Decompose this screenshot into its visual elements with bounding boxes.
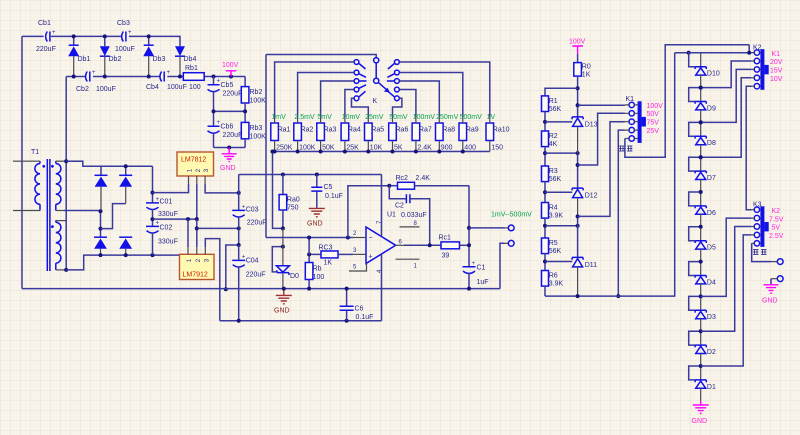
svg-text:Db3: Db3 <box>153 56 166 63</box>
wire 7812 gnd <box>196 184 198 219</box>
wire bridge zigzag <box>101 204 126 229</box>
svg-text:900: 900 <box>441 145 453 152</box>
node bottom rail junctions <box>72 75 233 79</box>
svg-text:RC3: RC3 <box>319 245 333 252</box>
svg-text:1uF: 1uF <box>477 279 489 286</box>
op-amp U1 <box>366 212 396 264</box>
svg-text:+: + <box>52 30 56 36</box>
wire K2 pin5 to K3 pin1 <box>746 86 752 210</box>
wire L4 to Ra4 <box>345 90 354 118</box>
diode D6 zener <box>695 192 716 227</box>
svg-text:−: − <box>369 235 373 242</box>
wire D12 anode <box>576 214 580 257</box>
pin LM7812 pin2 <box>196 176 198 184</box>
svg-text:Ra5: Ra5 <box>371 127 384 134</box>
pin T1 sec1 bottom <box>56 210 64 212</box>
svg-text:R3: R3 <box>549 168 558 175</box>
wire staple D1 <box>689 366 701 380</box>
label tap 10mV <box>342 114 361 121</box>
pin U1 pin2 <box>353 231 366 238</box>
svg-text:K1: K1 <box>772 51 781 58</box>
resistor Ra5 <box>365 123 385 152</box>
node ladder junction 9 <box>699 86 703 90</box>
svg-text:100: 100 <box>313 274 325 281</box>
svg-text:100uF: 100uF <box>167 84 187 91</box>
resistor Ra0 <box>279 175 300 229</box>
wire L1 to Ra1 <box>275 62 354 117</box>
node ladder junction 1 <box>699 364 703 368</box>
svg-text:LM7812: LM7812 <box>181 157 206 164</box>
svg-text:100: 100 <box>189 84 201 91</box>
svg-text:100K: 100K <box>250 98 267 105</box>
pin U1 pin3 <box>353 248 366 254</box>
wire minus rail2 <box>220 319 382 323</box>
svg-text:K: K <box>373 98 378 105</box>
svg-text:D7: D7 <box>707 175 716 182</box>
svg-text:75V: 75V <box>647 120 660 127</box>
diode D13 zener <box>572 117 598 153</box>
power port 100V right <box>569 39 586 55</box>
wire output right column <box>467 186 471 267</box>
svg-text:Rc1: Rc1 <box>439 235 452 242</box>
svg-text:D1: D1 <box>707 384 716 391</box>
svg-text:220uF: 220uF <box>223 91 243 98</box>
svg-text:400: 400 <box>464 145 476 152</box>
pin U1 pin8 <box>400 221 420 227</box>
wire ladder tap to K3 pin2 <box>701 218 752 296</box>
svg-text:10K: 10K <box>370 145 383 152</box>
svg-text:Ra0: Ra0 <box>287 197 300 204</box>
node ladder junction 4 <box>699 260 703 264</box>
svg-text:250K: 250K <box>276 145 293 152</box>
svg-text:D5: D5 <box>707 245 716 252</box>
svg-text:0.1uF: 0.1uF <box>356 314 374 321</box>
capacitor Cb6 <box>208 111 243 147</box>
diode D0 zener <box>276 228 299 290</box>
switch contact R5 <box>388 91 399 100</box>
ground GND magenta ladder <box>692 401 709 425</box>
wire tap R2R3 to D13 anode <box>545 151 580 155</box>
wire ground rail1 <box>22 288 500 290</box>
wire terminal2 to ground <box>771 279 777 285</box>
svg-text:4K: 4K <box>549 141 558 148</box>
svg-text:Cb6: Cb6 <box>221 124 234 131</box>
diode D9 zener <box>695 88 716 123</box>
svg-text:Ra7: Ra7 <box>419 127 432 134</box>
diode D7 zener <box>695 157 716 192</box>
diode D2 zener <box>695 331 716 366</box>
capacitor Cb1 <box>36 20 56 53</box>
wire plus input drop <box>308 238 310 255</box>
svg-text:2.4K: 2.4K <box>416 175 431 182</box>
wire staple D9 <box>689 88 701 102</box>
wire tap D13 <box>545 121 572 123</box>
svg-text:D2: D2 <box>707 349 716 356</box>
node ladder junction 7 <box>699 155 703 159</box>
pin LM7812 pin3 <box>204 176 206 184</box>
svg-text:25K: 25K <box>346 145 359 152</box>
wire ladder tap to K3 pin4 <box>701 235 752 366</box>
svg-text:5mV: 5mV <box>317 114 332 121</box>
pin T1 primary bottom <box>13 210 40 212</box>
wire ladder tap to K2 pin2 <box>699 61 752 90</box>
resistor Rc1 <box>439 235 470 260</box>
svg-text:100K: 100K <box>250 134 267 141</box>
wire ladder tap to K3 pin3 <box>701 227 752 332</box>
wire R1 to Ra10 <box>400 62 490 117</box>
svg-text:Db2: Db2 <box>109 56 122 63</box>
capacitor C5 <box>311 175 343 208</box>
capacitor C02 <box>146 217 178 255</box>
wire inverting input line <box>266 236 353 240</box>
svg-text:220uF: 220uF <box>36 46 56 53</box>
diode bridge D upper-right <box>119 175 132 203</box>
label tap 5mV <box>317 114 332 121</box>
wire plus12 rail <box>239 173 382 177</box>
wire R5 to Ra6 <box>393 98 402 117</box>
connector K1 middle <box>619 96 663 152</box>
wire staple D2 <box>689 331 701 345</box>
terminal output 2 <box>508 240 514 246</box>
svg-text:GND: GND <box>274 308 290 315</box>
wire ladder top <box>675 45 752 55</box>
svg-text:C04: C04 <box>246 258 259 265</box>
resistor Ra1 <box>271 123 293 152</box>
wire staple D7 <box>689 157 701 171</box>
svg-text:GND: GND <box>307 221 323 228</box>
svg-text:100K: 100K <box>299 145 316 152</box>
svg-text:15V: 15V <box>770 68 783 75</box>
svg-text:100V: 100V <box>569 39 586 46</box>
resistor R5 <box>542 224 562 262</box>
wire R2 to Ra9 <box>400 73 463 118</box>
resistor Ra3 <box>317 123 337 152</box>
resistor Ra7 <box>412 123 432 152</box>
svg-text:D0: D0 <box>290 273 299 280</box>
svg-text:Cb2: Cb2 <box>76 86 89 93</box>
switch contact R4 <box>395 87 400 92</box>
wire raw minus to regulator <box>151 253 180 257</box>
regulator U LM7912 <box>180 254 215 279</box>
pin T1 sec2 top <box>56 220 66 222</box>
svg-text:25V: 25V <box>647 128 660 135</box>
svg-text:K2: K2 <box>772 208 781 215</box>
resistor Ra6 <box>389 123 409 152</box>
diode Db3 <box>143 45 165 76</box>
svg-text:Db1: Db1 <box>78 56 91 63</box>
svg-text:GND: GND <box>762 298 778 305</box>
svg-text:C02: C02 <box>160 225 173 232</box>
resistor Rb1 <box>183 65 204 91</box>
svg-text:100V: 100V <box>222 62 239 69</box>
svg-text:150: 150 <box>491 145 503 152</box>
svg-text:D8: D8 <box>707 140 716 147</box>
node ladder junction 5 <box>699 225 703 229</box>
terminal output 1 <box>508 225 514 231</box>
resistor Rc2 <box>387 175 469 189</box>
label tap 1V <box>487 114 496 121</box>
wire zero volt jog to C03 col <box>197 226 241 230</box>
svg-text:1mV: 1mV <box>271 114 286 121</box>
terminal right 2 <box>777 276 783 282</box>
capacitor C1 <box>463 261 489 291</box>
node ladder junction 6 <box>699 190 703 194</box>
wire staple D8 <box>689 122 701 136</box>
resistor R3 <box>542 151 562 192</box>
svg-text:330uF: 330uF <box>158 239 178 246</box>
connector K3 lower right <box>752 202 784 256</box>
wire 7912 pin2 riser <box>195 219 199 247</box>
regulator U LM7812 <box>177 152 214 176</box>
wire bottom multiplier rail <box>66 76 245 78</box>
wire R3 to Ra8 <box>400 81 440 117</box>
wire sec1 top to bridge <box>66 161 101 166</box>
wire tap D11 <box>545 261 572 263</box>
svg-text:T1: T1 <box>31 149 39 156</box>
svg-text:2.5V: 2.5V <box>769 233 784 240</box>
svg-text:1K: 1K <box>582 72 591 79</box>
wire feedback up leg <box>348 186 389 238</box>
svg-text:R1: R1 <box>549 98 558 105</box>
pin resistor top stubs <box>275 117 490 123</box>
resistor Rb3 <box>241 111 266 147</box>
wire terminal1 <box>469 227 508 229</box>
svg-text:Cb1: Cb1 <box>38 20 51 27</box>
wire bridge top rail <box>101 164 153 175</box>
label tap 2.5mV <box>294 114 315 121</box>
label tap 100mV <box>413 114 436 121</box>
svg-text:220uF: 220uF <box>246 272 266 279</box>
wire staple D5 <box>689 227 701 241</box>
wire K1 pin2 route <box>578 113 625 165</box>
svg-text:3.9K: 3.9K <box>549 281 564 288</box>
svg-text:D6: D6 <box>707 210 716 217</box>
svg-text:C2: C2 <box>395 203 404 210</box>
svg-text:56K: 56K <box>549 106 562 113</box>
svg-text:Rb2: Rb2 <box>250 89 263 96</box>
svg-text:220uF: 220uF <box>223 132 243 139</box>
svg-text:R0: R0 <box>582 64 591 71</box>
wire terminal2 <box>500 243 508 288</box>
wire R4 to Ra7 <box>400 90 416 118</box>
resistor R6 <box>542 260 564 297</box>
pin U1 pin4 supply <box>377 254 383 321</box>
svg-text:Rb1: Rb1 <box>185 65 198 72</box>
wire output net <box>404 243 441 247</box>
wire switch common top <box>266 55 376 58</box>
wire L5 to Ra5 <box>352 98 369 117</box>
svg-text:D11: D11 <box>585 262 597 269</box>
resistor Ra4 <box>341 123 361 152</box>
pin LM7912 pin1 <box>187 247 189 254</box>
svg-text:Ra6: Ra6 <box>396 127 409 134</box>
ground GND dark red C5 <box>307 208 325 227</box>
pin T1 sec2 bottom <box>56 269 66 271</box>
terminal right 1 <box>777 259 783 265</box>
wire staple D3 <box>689 296 701 310</box>
svg-text:D9: D9 <box>707 105 716 112</box>
wire L2 to Ra2 <box>298 73 354 118</box>
svg-text:5V: 5V <box>772 225 781 232</box>
wire staple D10 <box>689 53 701 67</box>
svg-text:Ra8: Ra8 <box>442 127 455 134</box>
svg-text:C01: C01 <box>160 199 173 206</box>
svg-text:C5: C5 <box>324 184 333 191</box>
power port 100V top <box>222 62 239 77</box>
capacitor Cb4 <box>146 70 187 91</box>
svg-text:+: + <box>167 70 171 76</box>
wire 7812 output <box>205 184 241 195</box>
pin LM7912 pin3 <box>204 247 206 254</box>
svg-text:+: + <box>472 261 476 267</box>
node top rail junctions <box>72 34 151 38</box>
diode Db4 <box>175 46 196 76</box>
wire L3 to Ra3 <box>321 81 354 117</box>
capacitor Cb5 <box>208 77 243 112</box>
svg-text:C6: C6 <box>355 306 364 313</box>
svg-text:Cb4: Cb4 <box>146 84 159 91</box>
resistor R1 <box>542 96 562 122</box>
wire R0 to R1 <box>545 88 578 96</box>
wire top rail left riser <box>21 36 23 288</box>
wire to K1 pin1 <box>578 104 625 106</box>
diode Db1 <box>68 45 90 76</box>
resistor Ra2 <box>294 123 316 152</box>
switch K rotary <box>373 58 390 105</box>
svg-text:R2: R2 <box>549 133 558 140</box>
ground GND magenta right <box>762 285 779 305</box>
wire K1 pin5 to top link <box>625 45 749 157</box>
svg-text:LM7912: LM7912 <box>183 272 208 279</box>
svg-text:C03: C03 <box>246 207 259 214</box>
wire bridge left column <box>99 209 103 237</box>
ground GND magenta divider <box>220 148 237 173</box>
capacitor C6 <box>340 287 374 321</box>
svg-text:R5: R5 <box>549 240 558 247</box>
svg-text:1K: 1K <box>324 260 333 267</box>
resistor Rb <box>305 254 324 290</box>
svg-text:10V: 10V <box>770 76 783 83</box>
resistor Rb2 <box>241 77 266 112</box>
capacitor C2 <box>389 186 429 246</box>
resistor Ra9 <box>459 123 479 152</box>
pin LM7812 pin1 <box>188 176 190 184</box>
svg-text:Cb3: Cb3 <box>117 20 130 27</box>
capacitor C01 <box>146 166 178 219</box>
label output range <box>491 212 532 219</box>
wire 7812 input <box>153 184 189 193</box>
switch contact R1 <box>388 60 399 69</box>
wire 7912 output to rail2 <box>205 239 220 321</box>
resistor Ra10 <box>486 123 510 152</box>
svg-text:20V: 20V <box>770 59 783 66</box>
svg-text:7.5V: 7.5V <box>769 216 784 223</box>
svg-text:3.9K: 3.9K <box>549 213 564 220</box>
wire sec1 bottom to bridge <box>64 210 101 212</box>
pin U1 pin7 supply <box>377 175 383 237</box>
diode bridge D upper-left <box>95 175 108 211</box>
transformer T1 <box>31 149 61 271</box>
diode bridge D lower-right <box>119 237 132 255</box>
svg-text:2.4K: 2.4K <box>417 145 432 152</box>
wire attenuator bus drop <box>273 152 285 231</box>
svg-text:750: 750 <box>287 205 299 212</box>
capacitor Cb3 <box>115 20 135 53</box>
svg-text:5K: 5K <box>394 145 403 152</box>
wire sec2 bottom to bridge <box>66 255 100 270</box>
resistor R2 <box>542 120 558 153</box>
pin T1 sec1 top <box>56 160 66 162</box>
wire section common rail <box>545 53 675 298</box>
wire D0 staple <box>272 245 285 272</box>
connector K2 top right <box>752 45 783 90</box>
svg-text:50K: 50K <box>322 145 335 152</box>
svg-text:56K: 56K <box>549 176 562 183</box>
svg-text:+: + <box>128 30 132 36</box>
svg-text:Rb: Rb <box>313 266 322 273</box>
switch contact L5 <box>354 91 365 100</box>
svg-text:C1: C1 <box>477 265 486 272</box>
resistor Ra8 <box>436 123 456 152</box>
pin U1 pin5 <box>349 264 367 272</box>
svg-text:330uF: 330uF <box>158 211 178 218</box>
svg-text:56K: 56K <box>549 248 562 255</box>
wire zero volt rail <box>153 217 199 221</box>
svg-text:100uF: 100uF <box>96 86 116 93</box>
label tap 1mV <box>271 114 286 121</box>
switch contact L2 <box>354 70 366 77</box>
label tap 25mV <box>365 114 384 121</box>
svg-text:Db4: Db4 <box>184 56 197 63</box>
wire D13 anode to pin2 tap <box>576 153 580 188</box>
wire ladder tap to K2 pin4 <box>699 78 752 159</box>
svg-text:100V: 100V <box>647 103 664 110</box>
node ladder junction 2 <box>699 329 703 333</box>
svg-text:D12: D12 <box>585 193 598 200</box>
diode D12 zener <box>572 188 598 216</box>
wire mid node to rail1 <box>224 228 241 291</box>
switch contact R3 <box>387 79 399 84</box>
resistor R4 <box>542 190 564 226</box>
svg-text:Rb3: Rb3 <box>250 125 263 132</box>
wire bridge bottom rail <box>99 253 153 257</box>
label tap 500mV <box>460 114 483 121</box>
wire attenuator bus <box>271 150 490 154</box>
svg-text:+: + <box>92 70 96 76</box>
wire staple D4 <box>689 262 701 276</box>
switch contact R2 <box>387 70 399 77</box>
wire staple D6 <box>689 192 701 206</box>
wire divider mid <box>212 109 248 113</box>
svg-text:0.1uF: 0.1uF <box>325 193 343 200</box>
svg-text:Ra2: Ra2 <box>301 127 314 134</box>
wire tap D12 <box>545 191 572 193</box>
svg-text:D4: D4 <box>707 279 716 286</box>
wire 7912 pin1 riser <box>187 219 189 247</box>
wire top multiplier rail <box>22 36 180 46</box>
svg-text:R4: R4 <box>549 205 558 212</box>
diode D11 zener <box>572 257 597 296</box>
svg-text:Cb5: Cb5 <box>221 82 234 89</box>
diode D5 zener <box>695 227 716 262</box>
resistor R0 <box>574 54 591 117</box>
wire tap R4R5 <box>545 224 580 228</box>
svg-text:GND: GND <box>692 418 708 425</box>
pin T1 primary top <box>13 160 40 162</box>
node ladder junction 3 <box>699 294 703 298</box>
ground GND dark red center <box>274 289 292 315</box>
diode D10 zener <box>695 53 720 88</box>
